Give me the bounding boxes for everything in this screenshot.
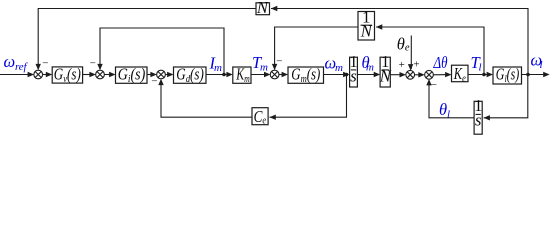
block Gd(s) [174,64,207,85]
wire Ce to S3 bottom [158,79,252,118]
block gear ratio 1/N main [379,52,392,87]
block integrator 1/s load [474,96,482,134]
svg-text:N: N [256,0,269,17]
node current pickoff dot [222,73,226,77]
wire Gl to output omega_l [522,72,550,77]
block Gl(s) [493,65,522,86]
wire S1 to Gv [42,72,52,77]
svg-text:s: s [350,66,356,85]
svg-text:−: − [151,76,157,88]
block Gi(s) [116,64,148,85]
summing junction S2 [96,70,105,79]
svg-text:Gd(s): Gd(s) [176,64,204,85]
wire torque feedback up to 1/N top [376,24,484,74]
svg-text:Gm(s): Gm(s) [291,64,320,85]
summing junction S6 [425,70,434,79]
wire 1/N top to S4 top [272,27,358,70]
node speed pickoff dot [345,73,349,77]
svg-text:−: − [431,79,437,91]
svg-text:s: s [475,110,481,129]
wire emf feedback down to Ce [269,75,346,120]
wire S2 to Gi [104,72,115,77]
wire load angle feedback down [484,75,528,121]
node output pickoff dot [526,73,530,77]
block Ke [452,64,469,85]
svg-text:ωl: ωl [531,50,543,71]
svg-text:N: N [360,21,373,40]
wire outer feedback up and left to N [271,6,528,75]
wire 1/s load to S6 bottom [426,79,474,118]
block N [256,0,270,17]
wire S5 to S6 [415,72,425,77]
block gear ratio 1/N top [358,7,375,40]
summing junction S5 [406,70,415,79]
wire integrator to 1/N [357,72,380,77]
svg-text:+: + [413,59,419,71]
wire 1/N to S5 [390,72,406,77]
wire Gm to integrator [324,72,350,77]
block Gm(s) [288,64,324,85]
block integrator 1/s motor [349,52,357,87]
wire input omega_ref [0,72,34,77]
wire Gd to Km [206,72,233,77]
wire theta_e input down to S5 [408,36,413,71]
wire Ke to Gl [468,72,493,77]
block Ce [252,107,268,126]
svg-text:−: − [276,56,282,68]
summing junction S3 [157,70,166,79]
summing junction S1 [34,70,43,79]
wire Km to S4 [251,72,270,77]
wire Gv to S2 [83,72,96,77]
wire S6 to Ke [433,72,451,77]
svg-text:−: − [90,58,96,70]
wire N to S1 top [36,9,257,71]
wire S4 to Gm [279,72,288,77]
summing junction S4 [270,70,279,79]
wire S3 to Gd [165,72,173,77]
svg-text:Gi(s): Gi(s) [118,64,146,85]
svg-text:+: + [399,59,405,71]
block Gv(s) [52,64,82,85]
node torque pickoff dot [482,73,486,77]
svg-text:N: N [379,67,392,86]
svg-text:Δθ: Δθ [433,53,448,72]
svg-text:−: − [42,57,48,69]
block Km [233,64,251,85]
wire Gi to S3 [147,72,157,77]
wire inner current feedback up [97,28,224,75]
svg-text:Gv(s): Gv(s) [54,64,81,85]
svg-text:Gl(s): Gl(s) [496,65,520,86]
